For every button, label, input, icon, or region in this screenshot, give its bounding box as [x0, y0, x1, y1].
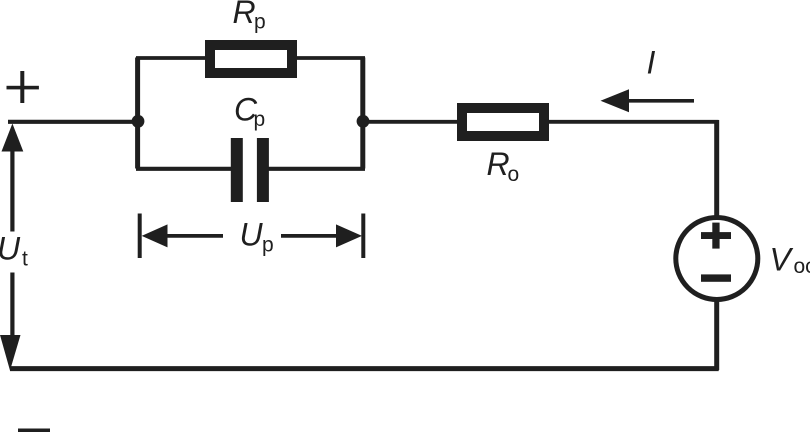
wire: left branch vertical (node A up/down)	[135, 58, 140, 169]
Up dimension: left tick	[138, 214, 142, 259]
capacitor C_p (two plates)	[231, 138, 269, 202]
terminal plus sign (+) top-left	[7, 71, 39, 103]
resistor R_p	[210, 45, 292, 73]
wire: bottom branch left (node A to Cp)	[136, 167, 232, 171]
svg-text:U: U	[240, 217, 264, 253]
svg-text:oc: oc	[794, 255, 810, 278]
wire: source bottom to bottom-right corner	[714, 300, 719, 370]
svg-text:I: I	[647, 44, 656, 80]
voltage source V_oc (circle)	[676, 218, 758, 300]
wire: Ro to top-right corner	[544, 120, 719, 124]
Up dimension: left arrow	[142, 224, 223, 247]
svg-text:p: p	[254, 11, 266, 34]
junction node A (dot)	[132, 115, 145, 128]
current arrow I (pointing left)	[601, 89, 695, 112]
svg-text:R: R	[233, 0, 256, 30]
wire: right branch vertical (node B)	[360, 58, 365, 169]
Up dimension: right tick	[361, 214, 365, 259]
plus sign inside source	[701, 223, 731, 249]
svg-text:t: t	[22, 248, 28, 271]
junction node B (dot)	[357, 115, 370, 128]
wire: left terminal to node A	[8, 120, 140, 124]
svg-text:p: p	[262, 234, 274, 257]
svg-text:p: p	[254, 108, 266, 131]
wire: top branch left (node A to Rp)	[136, 56, 207, 60]
svg-text:o: o	[508, 163, 520, 186]
wire: top branch right (Rp to node B)	[295, 56, 365, 60]
terminal voltage arrow U_t (double-headed, vertical)	[0, 124, 23, 371]
Up dimension: right arrow	[281, 224, 362, 247]
svg-text:U: U	[0, 231, 21, 267]
wire: bottom return (right corner to left)	[10, 366, 719, 371]
partial legend square at bottom-left edge	[18, 429, 50, 432]
wire: right vertical down to source Voc	[714, 120, 719, 216]
resistor R_o	[462, 108, 544, 136]
svg-text:V: V	[770, 242, 794, 278]
svg-text:R: R	[487, 146, 510, 182]
minus sign inside source	[701, 274, 731, 281]
wire: node B to resistor Ro	[363, 120, 462, 124]
wire: bottom branch right (Cp to node B)	[267, 167, 365, 171]
